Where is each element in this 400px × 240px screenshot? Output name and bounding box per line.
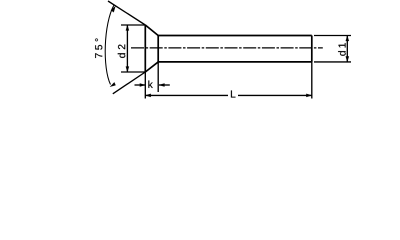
L arrowhead left (pointing left) xyxy=(145,94,151,97)
k dimension left arrow line xyxy=(135,84,146,86)
label k xyxy=(148,81,152,88)
d2 extension line top xyxy=(121,24,145,26)
d1 extension line bottom xyxy=(314,61,351,63)
label d2 xyxy=(118,45,126,58)
label L xyxy=(231,90,236,97)
shank bottom edge xyxy=(158,61,312,63)
75-deg lower extension line xyxy=(113,72,146,94)
75-deg dimension arc xyxy=(105,5,114,85)
d1 dimension line xyxy=(346,36,348,62)
head/shank junction line xyxy=(157,36,159,62)
shank top edge xyxy=(158,35,312,37)
junction extension line down (k right) xyxy=(157,62,159,92)
k left arrowhead (pointing right) xyxy=(140,83,146,86)
d1 arrow bottom xyxy=(346,56,349,62)
head face (left vertical edge) xyxy=(144,25,146,72)
arc arrowhead top xyxy=(111,6,116,12)
head cone upper edge xyxy=(145,25,158,36)
face extension line down (k / L left) xyxy=(144,72,146,99)
shank end line xyxy=(311,36,313,62)
d1 arrow top xyxy=(346,36,349,42)
shank end extension line down (L right) xyxy=(311,62,313,99)
d2 arrow bottom xyxy=(126,67,129,73)
d2 extension line bottom xyxy=(121,71,145,73)
d2 arrow top xyxy=(126,25,129,31)
head cone lower edge xyxy=(145,62,158,72)
label 75deg xyxy=(95,38,102,57)
L dimension line left part xyxy=(145,94,228,96)
d1 extension line top xyxy=(314,35,351,37)
75-deg upper extension line xyxy=(108,1,145,25)
k dimension right arrow line xyxy=(159,84,170,86)
centerline (dash-dot axis) xyxy=(131,47,323,49)
L arrowhead right (pointing right) xyxy=(306,94,312,97)
label d1 xyxy=(338,43,346,56)
d2 dimension line xyxy=(126,25,128,72)
arc arrowhead bottom xyxy=(110,82,116,87)
k right arrowhead (pointing left) xyxy=(159,83,165,86)
L dimension line right part xyxy=(238,94,312,96)
